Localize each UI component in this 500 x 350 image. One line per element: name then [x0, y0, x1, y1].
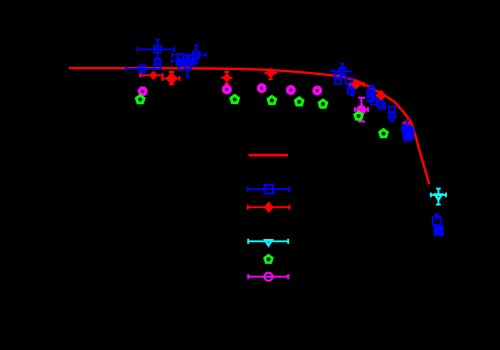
- cyan triangle T1: [433, 193, 444, 202]
- green pentagon P1: [136, 96, 144, 103]
- blue square S4 error bars: [126, 64, 158, 77]
- magenta circle M4: [288, 87, 294, 93]
- legend red diamond: [264, 201, 274, 213]
- blue filled square S25: [434, 226, 444, 237]
- SERIES: blue squares (slope cluster C3): [402, 120, 413, 140]
- blue square S24 error bar: [434, 215, 439, 220]
- blue square S8: [177, 59, 183, 65]
- blue cluster error bars: [171, 59, 198, 77]
- blue square S6: [178, 54, 184, 60]
- blue square S15: [349, 83, 355, 89]
- SERIES: magenta open circles: [139, 85, 320, 95]
- SERIES: red filled diamonds: [140, 68, 277, 85]
- blue square S17: [367, 90, 373, 96]
- blue square S10: [179, 64, 185, 70]
- red diamond D3 error bars: [221, 72, 233, 84]
- SERIES: blue squares (mid cluster B): [332, 64, 356, 96]
- magenta circle M2: [224, 86, 230, 92]
- red diamond D3: [222, 73, 231, 82]
- magenta circle M1: [139, 88, 145, 94]
- blue square S2: [155, 59, 161, 65]
- legend cyan entry error bar: [248, 239, 288, 244]
- magenta circle M3: [259, 85, 265, 91]
- blue square S1 error bars: [138, 40, 175, 60]
- blue square S24: [433, 217, 441, 225]
- legend cyan triangle hole: [268, 242, 270, 243]
- legend magenta entry error bar: [248, 274, 288, 279]
- blue square S11a: [185, 63, 191, 69]
- blue square S18b: [371, 98, 377, 104]
- red diamond D4: [266, 68, 276, 78]
- blue square S19: [389, 106, 395, 112]
- blue square S20 error bar: [390, 112, 395, 121]
- green pentagon P5: [319, 100, 327, 107]
- cyan triangle T1 center hole: [438, 196, 440, 197]
- blue square S15b: [348, 87, 354, 93]
- blue square S7: [183, 55, 189, 61]
- red theory curve: [69, 68, 429, 184]
- blue square S21: [402, 125, 409, 132]
- blue square S12a: [187, 56, 193, 62]
- red diamond D1 error bars: [140, 73, 163, 78]
- red diamond D4 error bars: [265, 68, 278, 79]
- green pentagon P2: [231, 95, 239, 102]
- blue square S5 error bars: [172, 45, 206, 63]
- blue square S11: [339, 68, 345, 74]
- green pentagon P4: [295, 98, 303, 105]
- legend magenta circle: [264, 273, 272, 281]
- legend blue square: [265, 185, 274, 194]
- blue cluster C3 top cap: [405, 120, 409, 126]
- blue square S23b: [404, 134, 411, 141]
- magenta circle M6 error bars: [355, 98, 368, 122]
- blue square S22: [403, 130, 410, 137]
- blue cluster C1 top cap: [369, 85, 374, 90]
- blue square S23: [407, 130, 414, 137]
- SERIES: green open pentagons: [136, 95, 326, 107]
- legend red curve sample: [249, 154, 289, 157]
- SERIES: blue open squares (left group): [126, 40, 206, 78]
- blue square S4: [139, 66, 146, 73]
- legend red entry error bar: [248, 205, 290, 210]
- blue square S9: [183, 60, 189, 66]
- red diamond D2: [165, 72, 178, 85]
- green pentagon P6: [355, 112, 363, 119]
- blue square S18d: [379, 103, 385, 109]
- blue square S14: [346, 78, 352, 84]
- red diamond D2 error bars: [162, 72, 179, 84]
- SERIES: blue squares (slope cluster C1): [367, 85, 385, 108]
- blue square S11 error bars: [332, 64, 353, 78]
- legend cyan triangle: [263, 239, 274, 248]
- magenta circle M5: [314, 87, 320, 93]
- red diamond D6: [376, 90, 387, 101]
- cyan triangle T1 error bars: [431, 189, 446, 205]
- blue square S3: [155, 63, 161, 69]
- green pentagon P3: [268, 96, 276, 103]
- blue square S15 error bar: [350, 82, 355, 96]
- magenta circle M6: [358, 107, 364, 113]
- blue square S16: [369, 87, 375, 93]
- blue square S13: [335, 78, 341, 84]
- red diamond D5 error bar: [349, 82, 364, 87]
- blue square S18c: [377, 100, 383, 106]
- legend blue entry error bar: [248, 187, 290, 192]
- blue square S1: [154, 46, 161, 53]
- blue square S13a: [188, 60, 194, 66]
- red diamond D5: [351, 80, 361, 90]
- red diamond D1: [149, 71, 158, 80]
- SERIES: blue squares (slope cluster C2): [389, 106, 395, 121]
- legend green pentagon: [265, 255, 273, 262]
- blue square S12: [335, 72, 341, 78]
- blue cluster C3 fill: [403, 126, 412, 141]
- green pentagon P7: [380, 130, 388, 137]
- blue square S5: [193, 52, 200, 59]
- blue square S20: [389, 112, 395, 118]
- red diamond D7: [402, 118, 412, 128]
- blue square S18: [368, 95, 374, 101]
